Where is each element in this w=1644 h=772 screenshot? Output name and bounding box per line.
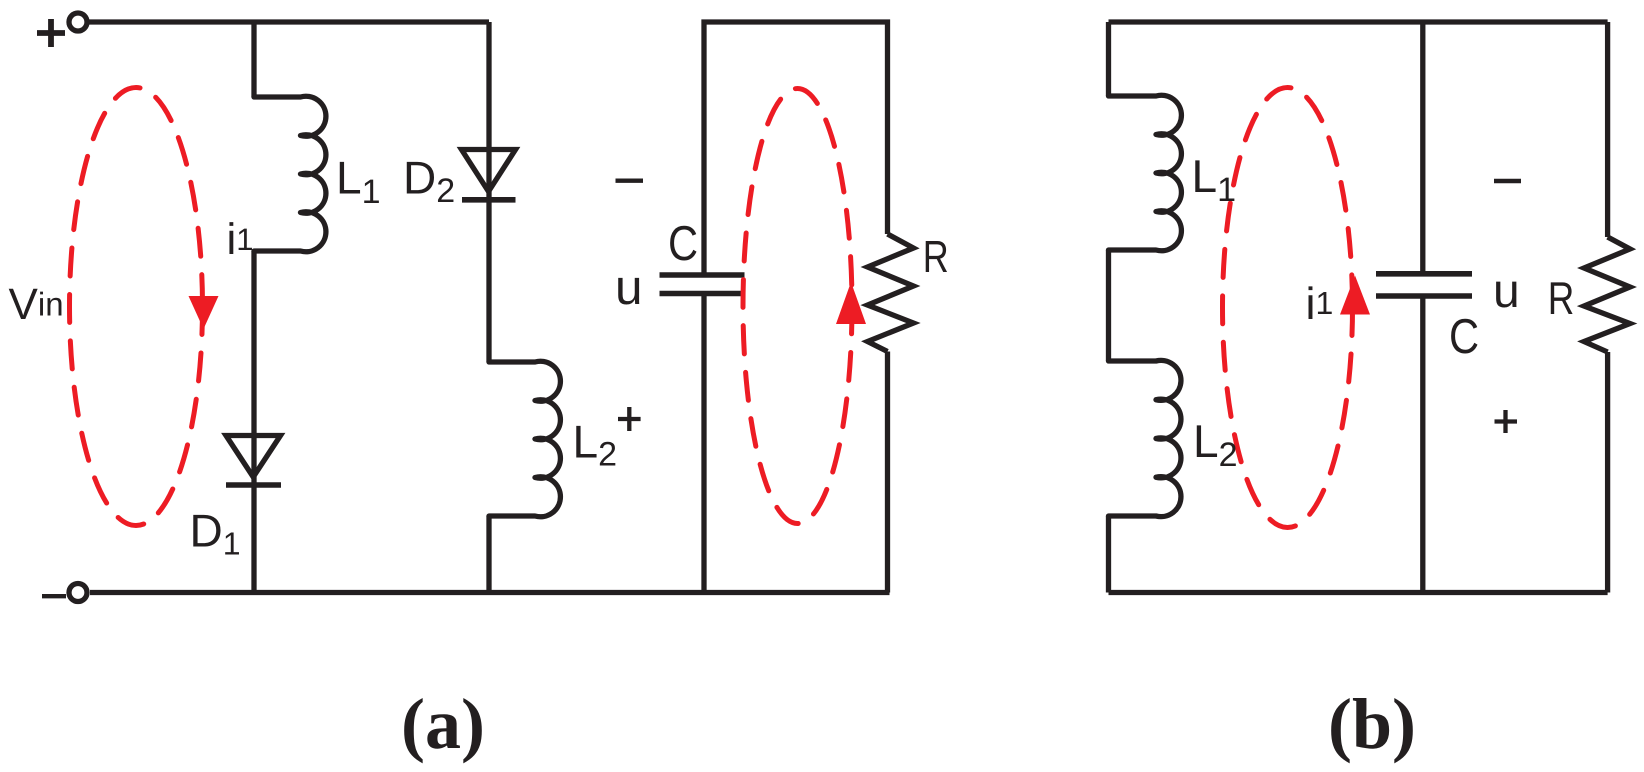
wire center branch (b) lower — [1420, 299, 1425, 593]
wire center branch (b) upper — [1420, 22, 1425, 272]
wire below capacitor C (a) — [701, 296, 706, 593]
svg-text:u: u — [1493, 265, 1520, 318]
svg-text:R: R — [1548, 272, 1575, 324]
svg-text:L1: L1 — [1192, 150, 1237, 209]
wire L2 to bottom — [486, 516, 491, 593]
svg-text:i1: i1 — [227, 215, 254, 264]
terminal - (input, bottom-left) — [69, 584, 87, 602]
svg-text:Vin: Vin — [9, 280, 64, 329]
label minus output (b) — [1494, 179, 1521, 183]
inductor L2 (a) — [489, 361, 560, 517]
svg-text:D1: D1 — [190, 505, 241, 562]
svg-text:C: C — [668, 217, 698, 271]
label plus output (a) — [618, 407, 641, 431]
wire (b) right side lower — [1605, 352, 1610, 593]
capacitor C (b) — [1376, 274, 1472, 296]
wire output loop (a): left+top+right sides — [704, 22, 888, 273]
wire D2 branch: top wire corner down through D2 to L2 — [486, 22, 491, 362]
svg-text:R: R — [923, 231, 949, 282]
wire top (a): input to D2 branch — [87, 19, 489, 24]
terminal + (input, top-left) — [69, 13, 87, 31]
wire L1 branch drop — [251, 22, 256, 97]
svg-text:D2: D2 — [403, 152, 455, 211]
diode D1 — [226, 436, 281, 478]
wire L1 through D1 to bottom — [251, 251, 256, 593]
wire bottom (a) — [90, 590, 890, 595]
inductor L1 (b) — [1109, 95, 1182, 251]
svg-text:i1: i1 — [1306, 278, 1334, 329]
svg-text:L1: L1 — [336, 152, 381, 212]
current loop ellipse (a) output — [743, 89, 852, 524]
wire (b) left side middle — [1106, 250, 1111, 361]
svg-text:L2: L2 — [1193, 415, 1238, 474]
wire below resistor R (a) — [885, 352, 890, 593]
current loop ellipse (a) input — [70, 88, 203, 526]
svg-text:(b): (b) — [1328, 684, 1416, 764]
svg-text:C: C — [1449, 310, 1479, 364]
arrow up output loop (a) — [836, 282, 866, 324]
svg-text:u: u — [615, 260, 643, 315]
inductor L2 (b) — [1109, 360, 1181, 516]
label plus output (b) — [1495, 410, 1518, 433]
label minus output (a) — [616, 178, 644, 182]
arrow i1 up (b) — [1340, 276, 1370, 315]
label + (input polarity) — [37, 19, 65, 47]
wire (b) left side upper — [1106, 22, 1111, 96]
resistor R (a) — [868, 234, 914, 352]
label - (input polarity) — [42, 594, 66, 598]
wire outer rect (b): top side — [1109, 19, 1608, 24]
wire bottom (b) — [1109, 590, 1608, 595]
diode D2 — [462, 150, 516, 192]
inductor L1 (a) — [254, 96, 326, 252]
svg-text:(a): (a) — [401, 684, 485, 764]
resistor R (b) — [1584, 237, 1630, 352]
capacitor C (a) — [660, 275, 745, 294]
wire (b) left side lower — [1106, 516, 1111, 593]
arrow i1 down (a) — [189, 296, 219, 329]
svg-text:L2: L2 — [573, 416, 618, 474]
current loop ellipse (b) — [1223, 88, 1353, 528]
wire (b) right side upper — [1605, 22, 1610, 237]
